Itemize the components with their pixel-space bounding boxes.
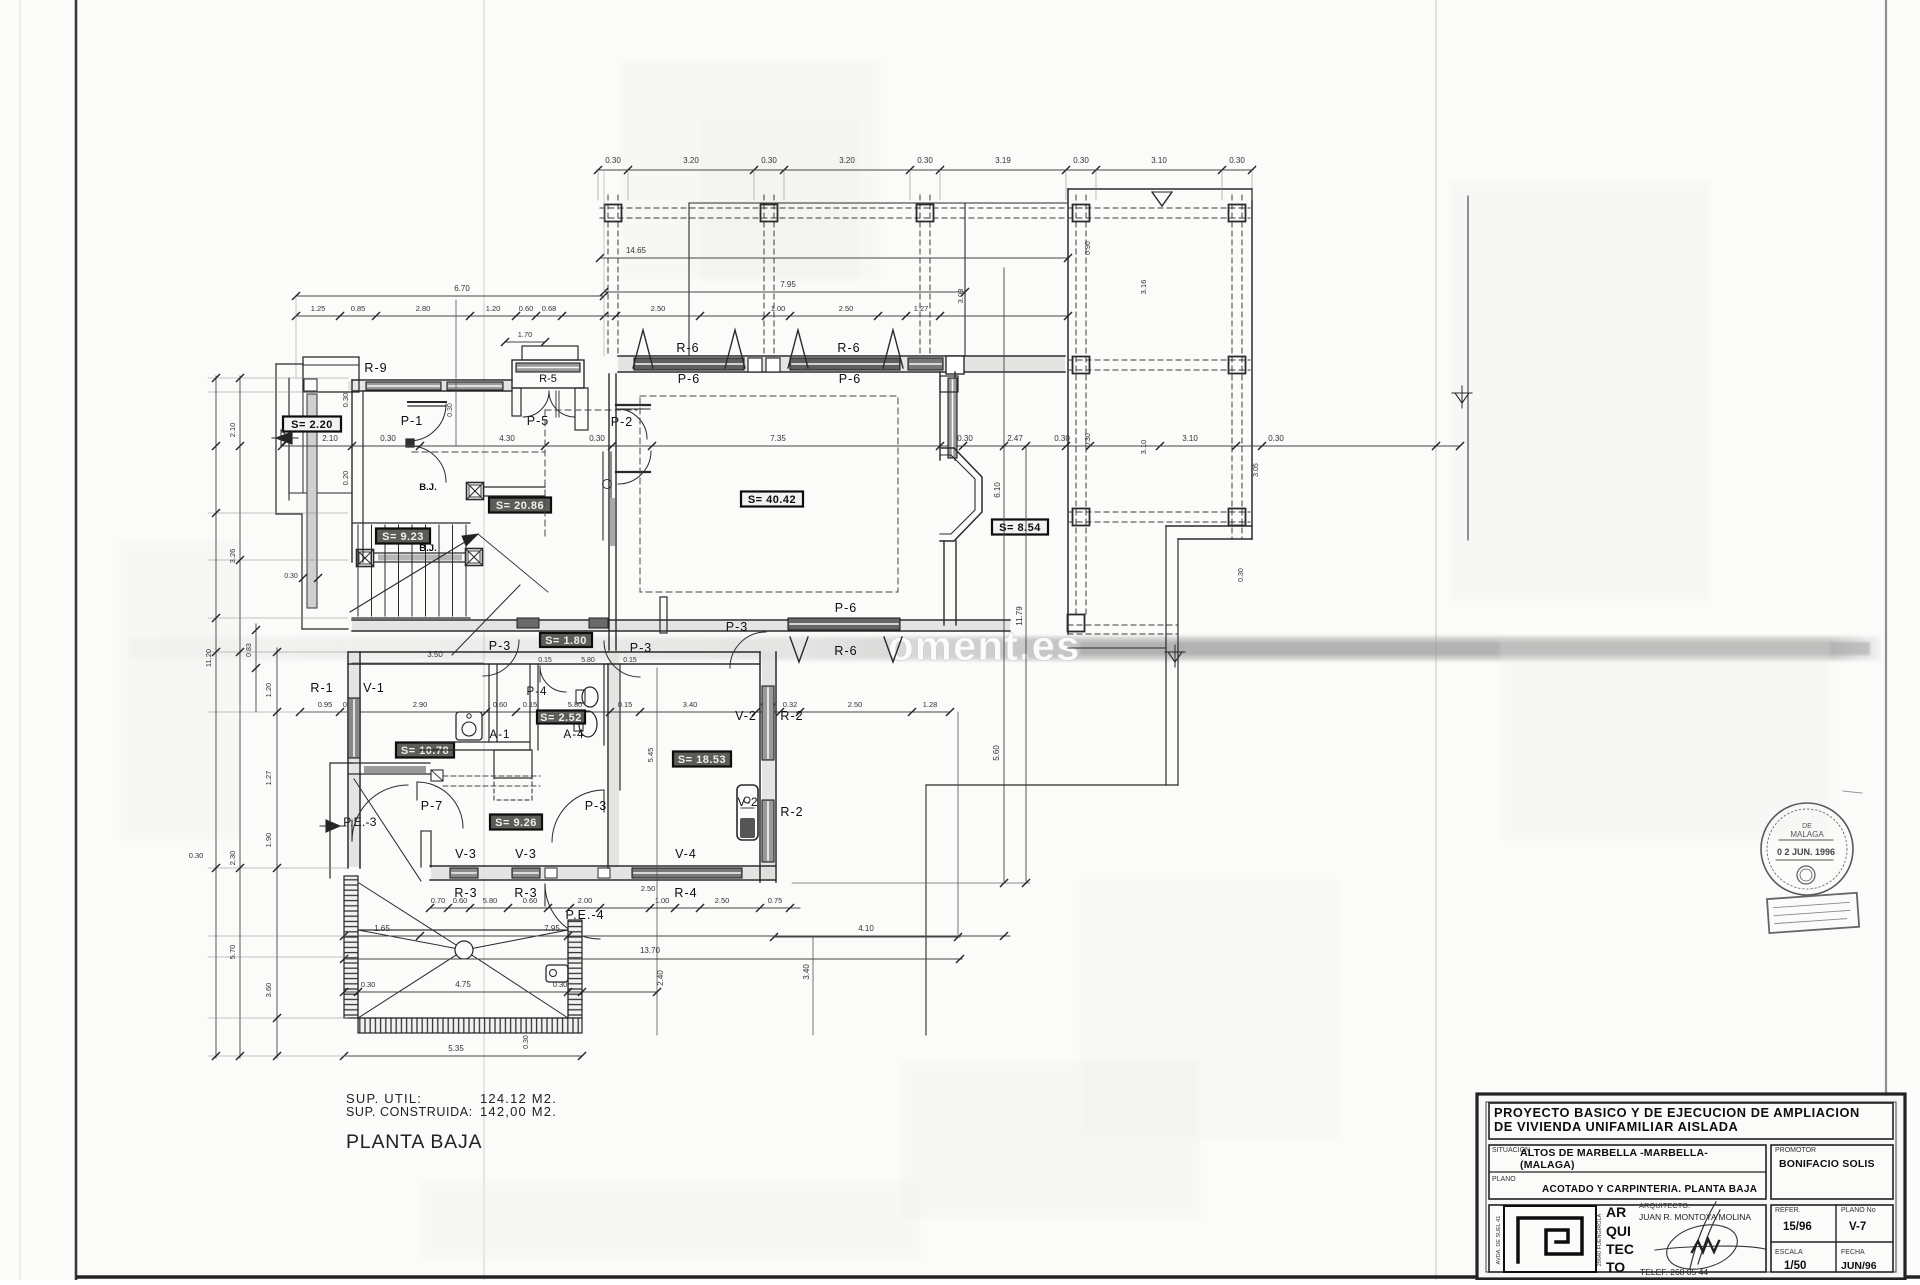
svg-text:1.20: 1.20 (264, 683, 273, 698)
left porch structure (276, 363, 303, 365)
sub chain y=316 (296, 315, 1068, 317)
svg-text:P.E.-3: P.E.-3 (343, 815, 377, 829)
pergola dashed grid verticals (607, 195, 609, 356)
svg-text:B.J.: B.J. (419, 543, 436, 554)
signature (1655, 1202, 1765, 1276)
beams between BJ (484, 486, 545, 488)
pergola dashed grid horizontals (600, 207, 1250, 209)
svg-text:P-4: P-4 (527, 686, 548, 698)
P-7 room small walls (421, 830, 431, 832)
svg-text:AVDA. DE SUEL 41: AVDA. DE SUEL 41 (1496, 1216, 1502, 1265)
main dim chain y446 (282, 445, 1460, 447)
room S=10.78 (396, 743, 454, 758)
svg-text:0.95: 0.95 (318, 700, 333, 709)
svg-text:5.70: 5.70 (228, 945, 237, 960)
right lower dims (430, 907, 800, 909)
svg-text:0.30: 0.30 (361, 980, 376, 989)
svg-text:TO: TO (1606, 1259, 1625, 1275)
terrace outline (358, 930, 568, 1018)
svg-text:P-3: P-3 (630, 641, 652, 655)
entry arrow (276, 432, 292, 444)
svg-text:R-2: R-2 (780, 709, 803, 723)
row2 left cell (1489, 1145, 1766, 1199)
svg-text:0.90: 0.90 (1085, 241, 1092, 255)
svg-text:2.00: 2.00 (578, 896, 593, 905)
svg-text:15/96: 15/96 (1783, 1221, 1812, 1233)
svg-text:R-4: R-4 (674, 886, 697, 900)
left border dark (75, 0, 78, 1280)
svg-text:1.20: 1.20 (486, 304, 501, 313)
svg-text:V-4: V-4 (675, 847, 697, 861)
kitchen counter (494, 750, 532, 778)
connector y883 (792, 882, 1030, 884)
svg-text:2.47: 2.47 (1007, 434, 1023, 443)
svg-text:0.30: 0.30 (1085, 433, 1092, 447)
svg-text:7.95: 7.95 (544, 924, 560, 933)
svg-text:1.25: 1.25 (311, 304, 326, 313)
svg-text:13.70: 13.70 (640, 946, 661, 955)
svg-text:0.30: 0.30 (761, 156, 777, 165)
top wall with windows R-6/P-6 (618, 355, 1065, 357)
nabla level symbol top (1152, 192, 1172, 206)
svg-text:6.70: 6.70 (454, 284, 470, 293)
round stamp (1761, 803, 1853, 895)
svg-text:R-1: R-1 (310, 681, 333, 695)
svg-text:3.05: 3.05 (1253, 463, 1260, 477)
bottom dim 5.35 (344, 1055, 582, 1057)
svg-text:R-9: R-9 (364, 361, 387, 375)
svg-text:S= 10.78: S= 10.78 (401, 745, 449, 757)
svg-text:2.30: 2.30 (228, 851, 237, 866)
svg-text:R-6: R-6 (676, 341, 699, 355)
svg-text:3.40: 3.40 (802, 964, 811, 980)
svg-text:3.10: 3.10 (1139, 440, 1148, 455)
svg-text:6.10: 6.10 (993, 482, 1002, 498)
title cell (1489, 1103, 1893, 1139)
svg-text:0.30: 0.30 (917, 156, 933, 165)
svg-text:0.30: 0.30 (605, 156, 621, 165)
svg-text:DE VIVIENDA UNIFAMILIAR AISLAD: DE VIVIENDA UNIFAMILIAR AISLADA (1494, 1119, 1738, 1134)
svg-text:0.30: 0.30 (189, 851, 204, 860)
svg-text:P-6: P-6 (839, 372, 861, 386)
svg-text:A-1: A-1 (490, 729, 511, 741)
svg-text:S= 40.42: S= 40.42 (748, 494, 796, 506)
small mark top right (1843, 791, 1862, 793)
svg-text:0.30: 0.30 (341, 393, 350, 408)
svg-text:2.50: 2.50 (848, 700, 863, 709)
svg-text:14.65: 14.65 (626, 246, 647, 255)
svg-text:P-1: P-1 (401, 414, 423, 428)
right page edge line (1885, 0, 1887, 1278)
svg-text:0.30: 0.30 (284, 573, 298, 580)
wall mass fills (618, 357, 1065, 371)
svg-text:0.30: 0.30 (1229, 156, 1245, 165)
svg-text:0 2 JUN. 1996: 0 2 JUN. 1996 (1777, 847, 1835, 857)
svg-text:S= 8.54: S= 8.54 (999, 522, 1041, 534)
svg-text:V-2: V-2 (735, 709, 757, 723)
roof edge rectangle (689, 202, 1068, 204)
fold line x=484 (483, 0, 485, 1280)
svg-text:2.40: 2.40 (656, 970, 665, 986)
svg-text:TEC: TEC (1606, 1241, 1634, 1257)
svg-text:3.60: 3.60 (264, 983, 273, 998)
svg-text:(MALAGA): (MALAGA) (1520, 1159, 1575, 1171)
svg-text:MALAGA: MALAGA (1790, 830, 1824, 839)
P.E.-3 porch (329, 763, 331, 878)
P-3 lower door arc (552, 790, 604, 842)
svg-text:1.00: 1.00 (771, 304, 786, 313)
P-7 door arc (417, 782, 463, 828)
svg-text:B.J.: B.J. (419, 482, 436, 493)
svg-text:1.70: 1.70 (518, 330, 533, 339)
svg-text:0.30: 0.30 (553, 980, 568, 989)
svg-text:S= 2.52: S= 2.52 (540, 712, 582, 724)
left wall upper block (351, 380, 353, 562)
svg-text:BONIFACIO SOLIS: BONIFACIO SOLIS (1779, 1158, 1875, 1170)
right wall upper block (939, 372, 941, 460)
svg-text:1.65: 1.65 (374, 924, 390, 933)
svg-text:29640 FUENGIROLA: 29640 FUENGIROLA (1597, 1213, 1603, 1266)
right wing walls from pergola down (1165, 526, 1167, 785)
svg-text:V-3: V-3 (455, 847, 477, 861)
svg-text:A-4: A-4 (564, 729, 585, 741)
corridor door arcs (483, 640, 519, 676)
svg-text:SUP. CONSTRUIDA:: SUP. CONSTRUIDA: (346, 1105, 473, 1119)
title block outer (1477, 1094, 1905, 1279)
svg-text:1/50: 1/50 (1784, 1260, 1806, 1272)
stairs treads (352, 522, 470, 524)
svg-text:3.19: 3.19 (995, 156, 1011, 165)
svg-text:PROMOTOR: PROMOTOR (1775, 1147, 1816, 1154)
dim 6.70 (296, 295, 604, 297)
svg-text:P-6: P-6 (835, 601, 857, 615)
svg-text:2.50: 2.50 (839, 304, 854, 313)
svg-text:PROYECTO BASICO Y DE EJECUCION: PROYECTO BASICO Y DE EJECUCION DE AMPLIA… (1494, 1105, 1860, 1120)
svg-text:142,00 M2.: 142,00 M2. (480, 1104, 557, 1119)
svg-text:S= 9.23: S= 9.23 (382, 531, 424, 543)
window swing triangles (633, 330, 653, 368)
svg-text:0.30: 0.30 (447, 403, 454, 417)
fold line x=1436 (1435, 0, 1437, 1280)
pergola outline (1067, 189, 1069, 634)
svg-text:0.32: 0.32 (783, 700, 798, 709)
svg-text:4.30: 4.30 (499, 434, 515, 443)
svg-text:5.60: 5.60 (992, 745, 1001, 761)
svg-text:0.75: 0.75 (768, 896, 783, 905)
svg-text:FECHA: FECHA (1841, 1249, 1865, 1256)
svg-text:R-5: R-5 (539, 373, 557, 385)
svg-text:SUP. UTIL:: SUP. UTIL: (346, 1091, 422, 1106)
dim 7.95 (604, 291, 965, 293)
R-5 window box (522, 346, 578, 360)
svg-text:R-6: R-6 (834, 644, 857, 658)
room S=9.26 (490, 815, 542, 830)
section cut diagonal (452, 585, 520, 655)
svg-text:QUI: QUI (1606, 1223, 1631, 1239)
porch diagonals (354, 779, 421, 881)
svg-text:3.20: 3.20 (683, 156, 699, 165)
svg-text:3.26: 3.26 (228, 549, 237, 564)
svg-text:1.27: 1.27 (264, 771, 273, 786)
terrace diagonals to drain (358, 930, 464, 950)
svg-text:0.30: 0.30 (1238, 568, 1245, 582)
svg-text:P-6: P-6 (678, 372, 700, 386)
svg-text:0.60: 0.60 (519, 304, 534, 313)
svg-text:0.15: 0.15 (538, 657, 552, 664)
S=2.20 box (283, 417, 341, 432)
svg-text:5.80: 5.80 (568, 700, 583, 709)
svg-text:2.50: 2.50 (715, 896, 730, 905)
svg-text:5.35: 5.35 (448, 1044, 464, 1053)
svg-text:7.35: 7.35 (770, 434, 786, 443)
left vertical dim chains (215, 376, 217, 1058)
row2 right cell promotor (1771, 1145, 1893, 1199)
svg-text:ALTOS DE MARBELLA -MARBELLA-: ALTOS DE MARBELLA -MARBELLA- (1520, 1147, 1708, 1159)
svg-text:0.30: 0.30 (957, 434, 973, 443)
dashed region hall (545, 409, 637, 411)
bottom wall with windows (430, 865, 775, 867)
svg-text:P-7: P-7 (421, 799, 443, 813)
svg-text:5.45: 5.45 (646, 748, 655, 763)
svg-text:AR: AR (1606, 1204, 1626, 1220)
washbasin (456, 712, 482, 740)
interior vertical wall x610 (608, 374, 610, 650)
svg-text:V-7: V-7 (1849, 1221, 1866, 1233)
dim 1.70 (505, 341, 545, 343)
svg-text:11.79: 11.79 (1015, 606, 1024, 626)
svg-text:0.60: 0.60 (493, 700, 508, 709)
small dashed corridor (443, 775, 540, 777)
svg-text:3.16: 3.16 (1139, 280, 1148, 295)
svg-text:0.83: 0.83 (246, 643, 253, 657)
svg-text:0.68: 0.68 (542, 304, 557, 313)
svg-text:0.60: 0.60 (523, 896, 538, 905)
top bump window (303, 357, 359, 392)
vertical dim lines right (1003, 268, 1005, 881)
svg-text:P-3: P-3 (726, 620, 748, 634)
lobby flanking wall masonry (517, 618, 539, 628)
stairs diagonal arrow (350, 534, 478, 612)
svg-text:ARQUITECTO:: ARQUITECTO: (1639, 1201, 1690, 1210)
S boxes (376, 529, 430, 544)
top-left wall R-9 (352, 379, 512, 381)
svg-text:0.70: 0.70 (431, 896, 446, 905)
scan smudges (620, 60, 880, 280)
svg-text:0.30: 0.30 (1268, 434, 1284, 443)
row3 right cells (1771, 1205, 1893, 1272)
middle wall y620 (352, 619, 1010, 621)
svg-text:5.80: 5.80 (581, 657, 595, 664)
svg-text:S= 1.80: S= 1.80 (545, 635, 587, 647)
svg-text:4.75: 4.75 (455, 980, 471, 989)
svg-text:2.50: 2.50 (651, 304, 666, 313)
bottom border dark (76, 1275, 1920, 1279)
room S=18.53 walls (608, 651, 760, 653)
svg-text:0.30: 0.30 (589, 434, 605, 443)
svg-text:0.20: 0.20 (341, 471, 350, 486)
svg-text:3.08: 3.08 (956, 289, 965, 304)
svg-text:JUAN R. MONTOYA MOLINA: JUAN R. MONTOYA MOLINA (1639, 1212, 1751, 1222)
bath walls (488, 664, 490, 742)
svg-text:2.90: 2.90 (413, 700, 428, 709)
svg-text:3.10: 3.10 (1151, 156, 1167, 165)
svg-text:2.80: 2.80 (416, 304, 431, 313)
svg-text:V-3: V-3 (515, 847, 537, 861)
terrace sink (546, 965, 568, 982)
BJ crossed squares (467, 483, 484, 500)
terrace dims (344, 935, 1010, 937)
svg-text:2.10: 2.10 (228, 423, 237, 438)
svg-text:0.60: 0.60 (453, 896, 468, 905)
svg-text:3.40: 3.40 (683, 700, 698, 709)
svg-text:R-2: R-2 (780, 805, 803, 819)
svg-text:2.10: 2.10 (322, 434, 338, 443)
svg-text:0.30: 0.30 (380, 434, 396, 443)
row3 left cell (1489, 1205, 1766, 1272)
dashed region living (640, 396, 898, 592)
left exterior wall lower (347, 652, 349, 868)
dim labels under corridor (300, 711, 950, 713)
corridor S=1.80 (540, 633, 592, 647)
svg-text:PLANO No: PLANO No (1841, 1207, 1876, 1214)
svg-text:1.90: 1.90 (264, 833, 273, 848)
S=8.54 (992, 520, 1048, 535)
side window column P-2 (602, 452, 604, 540)
rect stamp (1767, 893, 1859, 933)
svg-text:JUN/96: JUN/96 (1841, 1260, 1877, 1272)
svg-text:P-2: P-2 (611, 415, 633, 429)
svg-text:1.00: 1.00 (655, 896, 670, 905)
svg-text:ESCALA: ESCALA (1775, 1249, 1803, 1256)
svg-text:11.20: 11.20 (204, 649, 213, 667)
svg-text:S= 9.26: S= 9.26 (495, 817, 537, 829)
vertical guide x456 (455, 300, 457, 446)
elevation marker right (1467, 196, 1469, 540)
lower block top wall (348, 651, 608, 653)
stairwell left wall pair (307, 394, 317, 608)
svg-text:4.10: 4.10 (858, 924, 874, 933)
vertical dims bottom right (957, 712, 959, 937)
bath labels (537, 711, 585, 725)
appliance (737, 785, 758, 840)
fold line left faint (19, 0, 21, 1280)
bay window (940, 448, 982, 541)
wall below bay (943, 541, 945, 625)
svg-text:S= 18.53: S= 18.53 (678, 754, 726, 766)
top dimension chain (597, 169, 1253, 171)
svg-text:PLANO: PLANO (1492, 1176, 1516, 1183)
svg-text:V-1: V-1 (363, 681, 385, 695)
svg-text:REFER.: REFER. (1775, 1207, 1801, 1214)
svg-text:S= 20.86: S= 20.86 (496, 500, 544, 512)
svg-text:ACOTADO Y CARPINTERIA. PLANTA: ACOTADO Y CARPINTERIA. PLANTA BAJA (1542, 1184, 1757, 1195)
svg-text:DE: DE (1802, 823, 1812, 830)
svg-text:0.85: 0.85 (351, 304, 366, 313)
svg-text:5.80: 5.80 (483, 896, 498, 905)
svg-text:0.30: 0.30 (1073, 156, 1089, 165)
svg-text:S= 2.20: S= 2.20 (291, 419, 333, 431)
svg-text:PLANTA BAJA: PLANTA BAJA (346, 1131, 482, 1153)
svg-text:R-6: R-6 (837, 341, 860, 355)
pergola columns (605, 205, 622, 222)
dim 4.10 line (774, 936, 960, 938)
svg-text:0.30: 0.30 (1054, 434, 1070, 443)
svg-text:0.30: 0.30 (523, 1035, 530, 1049)
svg-text:0.15: 0.15 (623, 657, 637, 664)
svg-text:7.95: 7.95 (780, 280, 796, 289)
svg-text:3.10: 3.10 (1182, 434, 1198, 443)
svg-text:3.20: 3.20 (839, 156, 855, 165)
svg-text:1.27: 1.27 (914, 304, 929, 313)
svg-text:1.28: 1.28 (923, 700, 938, 709)
interior vertical dim (656, 668, 658, 1035)
toilets (582, 687, 598, 707)
svg-text:P-3: P-3 (489, 639, 511, 653)
dim 14.65 (600, 257, 1068, 259)
logo box (1504, 1206, 1596, 1272)
svg-text:2.50: 2.50 (641, 884, 656, 893)
